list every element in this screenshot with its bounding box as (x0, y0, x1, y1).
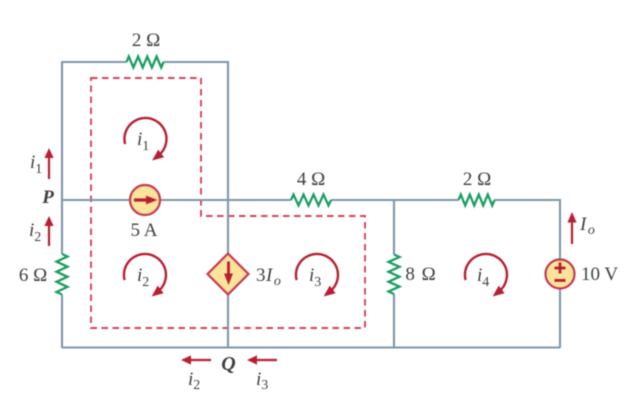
svg-text:8 Ω: 8 Ω (405, 264, 436, 285)
svg-text:Q: Q (221, 353, 235, 375)
svg-text:4 Ω: 4 Ω (297, 169, 325, 190)
svg-text:2 Ω: 2 Ω (132, 30, 160, 51)
svg-text:2 Ω: 2 Ω (463, 169, 491, 190)
svg-text:10 V: 10 V (581, 264, 618, 285)
svg-text:5 A: 5 A (131, 220, 158, 241)
svg-text:6 Ω: 6 Ω (19, 265, 47, 286)
svg-text:P: P (41, 187, 54, 208)
